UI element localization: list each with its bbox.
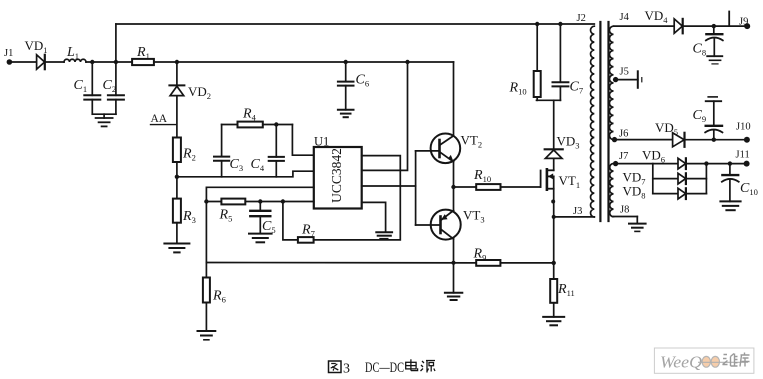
wire: left bus for VD7/VD8 [652,164,654,194]
ground (R11) [543,317,564,325]
diode VD1 [25,38,48,69]
ground (U1) [376,232,392,239]
svg-text:J10: J10 [736,122,751,133]
svg-text:R4: R4 [242,107,257,123]
svg-text:VD3: VD3 [557,134,580,151]
wire: VD8 row [653,193,678,195]
node: VD2 junction [175,60,179,64]
svg-text:3: 3 [343,362,350,377]
node: VCC junction on rail [405,60,409,64]
capacitor C2 [103,62,124,114]
wire: emitter junction down to VT3 [453,162,455,211]
svg-text:R6: R6 [212,289,226,305]
node: C7 junction on top rail [558,22,562,26]
node J5 tap [613,67,642,88]
node AA [151,113,176,125]
resistor R4 [222,107,293,128]
wire: bottom sense rail [206,262,476,264]
svg-text:R10: R10 [473,168,491,184]
svg-text:R2: R2 [182,147,196,163]
wire [686,193,707,195]
svg-text:C10: C10 [740,181,758,197]
tick near J9 [728,12,730,27]
capacitor C4 [251,125,284,177]
resistor R1 [132,45,154,65]
svg-text:R7: R7 [301,223,315,239]
wire: snubber to VD3 [553,100,555,149]
diode VD4 [645,8,683,33]
源 [421,361,436,373]
svg-text:C1: C1 [74,78,88,94]
wire [683,25,748,27]
transistor VT2 (NPN) [431,133,482,164]
svg-text:C8: C8 [693,42,707,58]
svg-text:AA: AA [151,113,168,125]
svg-text:C6: C6 [356,73,370,89]
wire: right bus [705,164,707,194]
wire [176,223,178,244]
svg-text:C2: C2 [103,78,117,94]
node J10 [736,122,751,143]
node: right bus junction [704,161,708,165]
transformer secondary 1 (J4-J6, tap J5) [609,12,629,140]
svg-text:J4: J4 [620,12,630,23]
node: C6 junction [344,60,348,64]
transistor VT1 (N-MOSFET) [541,169,580,190]
transformer T1: primary winding J2-J3 [577,13,595,217]
node: L1/C1 junction [90,60,94,64]
ground (R3) [164,244,189,253]
wire: J7 output row [616,163,678,165]
svg-text:R3: R3 [182,209,196,225]
svg-text:VT3: VT3 [463,208,485,225]
wire: VCC riser to U1 [362,62,408,170]
node J11 [736,150,750,167]
node: emitter junction [451,185,455,189]
ground (C1/C2) [96,114,113,126]
svg-text:VT2: VT2 [461,133,483,150]
svg-text:R1: R1 [136,45,150,61]
node: C5 junction [258,199,262,203]
node J3 tee [552,215,556,219]
svg-text:VD4: VD4 [645,8,669,25]
resistor R6 [203,263,226,332]
node: source dot [551,200,555,204]
wire: J3 to primary [554,216,595,218]
ground (VT3) [445,293,462,300]
node: C8 junction [712,24,716,28]
node J6 [612,129,629,143]
ground (C8) [707,56,722,64]
wire: VT2 base stub [416,150,440,152]
capacitor C8 (polarized) [693,26,723,57]
wire [45,61,64,63]
电 [406,359,418,370]
svg-text:J5: J5 [620,67,629,78]
capacitor C5 [250,202,275,236]
wire [685,139,747,141]
svg-text:C4: C4 [251,157,265,173]
svg-text:VD5: VD5 [655,120,678,137]
node: VT3 gnd crossing [452,261,456,265]
node: R4/C4 junction [274,122,278,126]
ground (R6) [198,331,216,340]
op-amp U1 (UCC3842 PWM controller) [314,135,362,209]
resistor R10 (snubber) [509,24,541,100]
wire [9,61,36,63]
wire [686,178,707,180]
capacitor C6 [338,62,369,110]
caption 图3 DC-DC电源 [329,359,436,376]
diode VD7 [623,170,686,187]
transistor VT3 (PNP) [431,208,485,240]
wire: J4 output row [614,25,675,27]
svg-text:J11: J11 [736,150,750,161]
svg-text:R5: R5 [219,208,233,224]
wire: U1 pin L3 [206,187,313,262]
wire [86,61,132,63]
node J9 [739,17,750,30]
wire: VT2 collector to rail [453,62,455,136]
svg-text:R9: R9 [473,247,487,263]
svg-text:J1: J1 [4,48,13,59]
svg-text:U1: U1 [314,135,329,149]
svg-text:VD6: VD6 [642,148,665,165]
svg-text:VD1: VD1 [25,38,48,55]
svg-text:R11: R11 [557,282,575,298]
维 [723,354,738,367]
resistor R11 [550,279,575,317]
wire: base bus [415,151,417,225]
svg-text:R10: R10 [509,81,527,97]
ground (C5) [249,234,272,243]
wire: top rail riser [115,24,117,62]
node: R5 left junction [204,199,208,203]
node: R7 drop junction [281,199,285,203]
wire [686,163,747,165]
capacitor C1 [74,62,101,114]
node: C10 junction [728,161,732,165]
diode VD6 [642,148,686,170]
ground (C6) [338,110,354,117]
wire [154,61,454,63]
node: C9 junction [712,138,716,142]
resistor R9 [473,247,554,266]
svg-text:J2: J2 [577,13,586,24]
wire: U1 ground pin [362,202,386,232]
svg-text:J6: J6 [619,129,628,140]
库 [740,353,750,367]
wire: snubber bottom bar [537,99,561,101]
node J7 [613,151,628,166]
wire: J8 row [614,205,638,217]
capacitor C7 [553,24,584,100]
wire [92,113,116,115]
resistor R2 [173,138,196,163]
diode VD5 [655,120,685,147]
svg-text:C9: C9 [693,108,707,124]
svg-text:L1: L1 [66,45,79,61]
wire: J6 output row [614,139,673,141]
wire: VD7 row [653,178,678,180]
resistor R5 [219,199,246,224]
wire: VT3 collector to ground [453,239,455,293]
wire: VT1 source down [553,176,555,279]
svg-text:VT1: VT1 [559,173,581,190]
capacitor C10 (polarized) [722,164,758,202]
node: snubber R10 junction on top rail [535,22,539,26]
node: R9/R11 junction [552,261,556,265]
svg-text:DC—DC: DC—DC [365,360,404,376]
wire: VD3 to VT1 drain [553,158,555,170]
wire: VT3 base stub [416,224,441,226]
wire: U1 pin L4 line [206,201,313,203]
diode VD8 [623,184,686,201]
svg-text:VD2: VD2 [188,84,211,101]
svg-text:J9: J9 [739,17,748,28]
wire: top rail [116,23,594,25]
resistor R7 [298,223,315,243]
capacitor C3 [214,125,243,177]
node: C2/top-rail junction [114,60,118,64]
inductor L1 [64,45,86,62]
svg-text:C7: C7 [570,80,584,96]
svg-text:WeeQ: WeeQ [660,353,702,372]
diode VD2 [169,84,211,101]
wire: U1 output to base bus [362,185,416,187]
node: R2/R3 junction [175,175,179,179]
ground (J8) [629,217,646,232]
wire: FB rail to U1 pin L2 [177,171,314,177]
wire: R7 branch [283,202,298,240]
svg-text:UCC3842: UCC3842 [329,148,344,203]
ground (C10) [720,201,740,210]
wire: to U1 pin L1 [292,125,313,156]
svg-text:C3: C3 [230,157,244,173]
node J1 [4,48,13,65]
wire: VD2/R2 chain vertical [176,62,178,138]
wire [176,162,178,199]
transformer secondary 2 (J7-J8) [610,164,614,217]
resistor R10 (gate) [454,168,541,190]
diode VD3 [545,134,580,159]
svg-text:J3: J3 [573,206,582,217]
svg-text:J7: J7 [619,151,628,162]
watermark WeeQoo维库 [654,348,754,373]
wire: R7 to U1 right pin [314,156,401,240]
resistor R3 [173,199,196,225]
svg-text:J8: J8 [620,205,629,216]
transformer core [600,22,608,221]
capacitor C9 (polarized, ground above) [693,97,723,140]
